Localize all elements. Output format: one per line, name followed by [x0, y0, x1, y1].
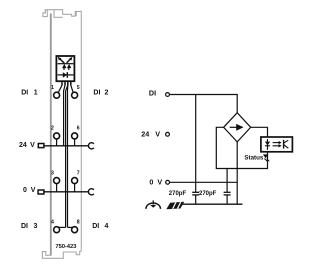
svg-text:1: 1 — [34, 90, 38, 97]
svg-text:7: 7 — [77, 171, 80, 177]
svg-text:8: 8 — [77, 220, 80, 226]
svg-text:DI: DI — [21, 90, 28, 97]
svg-text:270pF: 270pF — [199, 191, 217, 197]
svg-text:2: 2 — [51, 126, 54, 132]
svg-text:24: 24 — [19, 142, 27, 149]
svg-text:V: V — [31, 187, 36, 194]
svg-text:3: 3 — [33, 223, 37, 230]
svg-text:0: 0 — [149, 177, 153, 186]
svg-text:1: 1 — [51, 85, 54, 91]
svg-text:24: 24 — [141, 130, 149, 139]
svg-text:4: 4 — [51, 220, 54, 226]
svg-text:V: V — [155, 130, 160, 139]
svg-text:750-423: 750-423 — [55, 244, 77, 250]
svg-text:DI: DI — [21, 223, 28, 230]
svg-text:DI: DI — [149, 89, 156, 98]
svg-text:DI: DI — [93, 90, 100, 97]
svg-text:4: 4 — [104, 223, 108, 230]
svg-text:Status: Status — [244, 154, 263, 161]
svg-text:5: 5 — [77, 85, 80, 91]
svg-text:V: V — [157, 177, 162, 186]
svg-text:DI: DI — [92, 223, 99, 230]
svg-text:2: 2 — [104, 90, 108, 97]
svg-text:3: 3 — [51, 171, 54, 177]
svg-text:V: V — [30, 142, 35, 149]
svg-text:6: 6 — [77, 126, 80, 132]
svg-text:270pF: 270pF — [169, 191, 187, 197]
svg-text:0: 0 — [23, 187, 27, 194]
